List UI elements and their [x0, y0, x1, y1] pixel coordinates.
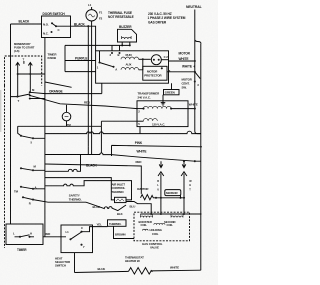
door switch contacts	[51, 22, 58, 33]
cycling thermostat box	[108, 220, 127, 227]
wire run to switch	[139, 58, 151, 60]
wire blue	[86, 202, 126, 210]
valve dashed box	[134, 212, 190, 241]
timer contact R	[23, 197, 86, 202]
wire brown	[114, 226, 135, 238]
wire purple	[65, 60, 96, 62]
scan artifacts	[0, 90, 2, 132]
wire buzzer bus	[65, 44, 130, 46]
wire lower branch	[45, 178, 115, 200]
motor protector box	[143, 66, 167, 80]
motor start switch arm	[100, 51, 114, 67]
wire red to transformer	[30, 95, 137, 108]
door switch S1 box	[42, 16, 71, 38]
wire start row	[18, 73, 45, 75]
wire white run	[45, 153, 201, 161]
timer box	[6, 224, 43, 245]
holding coil	[143, 229, 149, 230]
wire lower feed	[65, 71, 96, 73]
secondary winding	[144, 119, 158, 121]
push-to-start dashed enclosure	[5, 56, 42, 86]
timer motor leads	[66, 105, 68, 126]
heat selector switch box	[61, 225, 93, 253]
wire motor to box edge	[161, 59, 168, 61]
wire neutral jog to right bus	[195, 40, 201, 44]
wire aux join	[139, 59, 143, 70]
noise overlay	[0, 0, 218, 285]
wire neutral bus	[195, 10, 201, 134]
ground	[161, 95, 166, 105]
primary winding	[144, 106, 172, 108]
wire left bus	[10, 24, 12, 224]
transformer T1 box	[137, 101, 188, 127]
wire transformer to neutral	[171, 108, 195, 110]
motor centrifugal device	[151, 55, 161, 65]
aux winding	[121, 68, 139, 70]
wire with crossover hops	[45, 155, 81, 172]
wire motor common to neutral	[169, 60, 195, 62]
label GREEN boxed	[164, 90, 180, 95]
wire right bus	[200, 44, 202, 271]
wire to neutral junction	[45, 131, 201, 133]
wire transformer lower drop	[100, 126, 102, 133]
wire pink	[112, 145, 203, 156]
wire transformer lead to junction row	[139, 127, 141, 134]
wire from M lower	[30, 98, 45, 100]
center coil	[154, 223, 165, 224]
sensor box	[165, 190, 181, 196]
motor box	[96, 51, 169, 83]
wire pink riser	[87, 26, 89, 146]
run winding	[121, 57, 139, 59]
sensor row wire	[156, 198, 184, 214]
timer contact TM A	[21, 187, 45, 189]
secondary coil	[171, 214, 183, 218]
wire fuse to motor box	[92, 26, 96, 51]
wire transformer secondary feed	[101, 121, 137, 126]
green lead from motor box	[171, 83, 173, 89]
wire yellow	[82, 227, 108, 232]
wire blu to valve	[126, 202, 151, 215]
wire riser ends	[88, 26, 101, 155]
wire door switch C to fuse	[56, 25, 92, 27]
air inlet thermostat	[115, 197, 127, 202]
sensor connector arrows	[182, 161, 186, 167]
buzzer leads	[122, 42, 130, 45]
wire red lower	[45, 164, 141, 194]
timer dashed line	[4, 86, 6, 249]
wire orange	[30, 92, 102, 93]
wire stubs to motor box top	[112, 45, 120, 50]
wire heat selector drop	[74, 253, 76, 273]
wire red to heat selector	[43, 236, 61, 238]
wire orange riser to motor box	[101, 83, 103, 93]
thermostat heater resistor	[129, 268, 153, 275]
wire timer bus	[44, 38, 46, 237]
wire lower row	[18, 125, 102, 127]
wire diagonal	[45, 82, 72, 87]
wire L1 black feed	[11, 23, 42, 25]
thermal fuse F	[86, 10, 97, 21]
ignitor connector arrows	[159, 161, 163, 167]
junction	[87, 25, 89, 27]
valve top rail	[141, 213, 202, 215]
timer contact row2	[21, 168, 45, 170]
wire crossover hops lower	[45, 181, 132, 200]
wire bottom white/blue	[75, 270, 201, 272]
wire protector to neutral	[167, 71, 195, 73]
booster coil	[141, 214, 153, 218]
wire purple drop	[64, 45, 66, 71]
timer contact 5	[21, 136, 45, 139]
timer motor TM	[62, 112, 71, 121]
timer contact M	[11, 94, 30, 97]
